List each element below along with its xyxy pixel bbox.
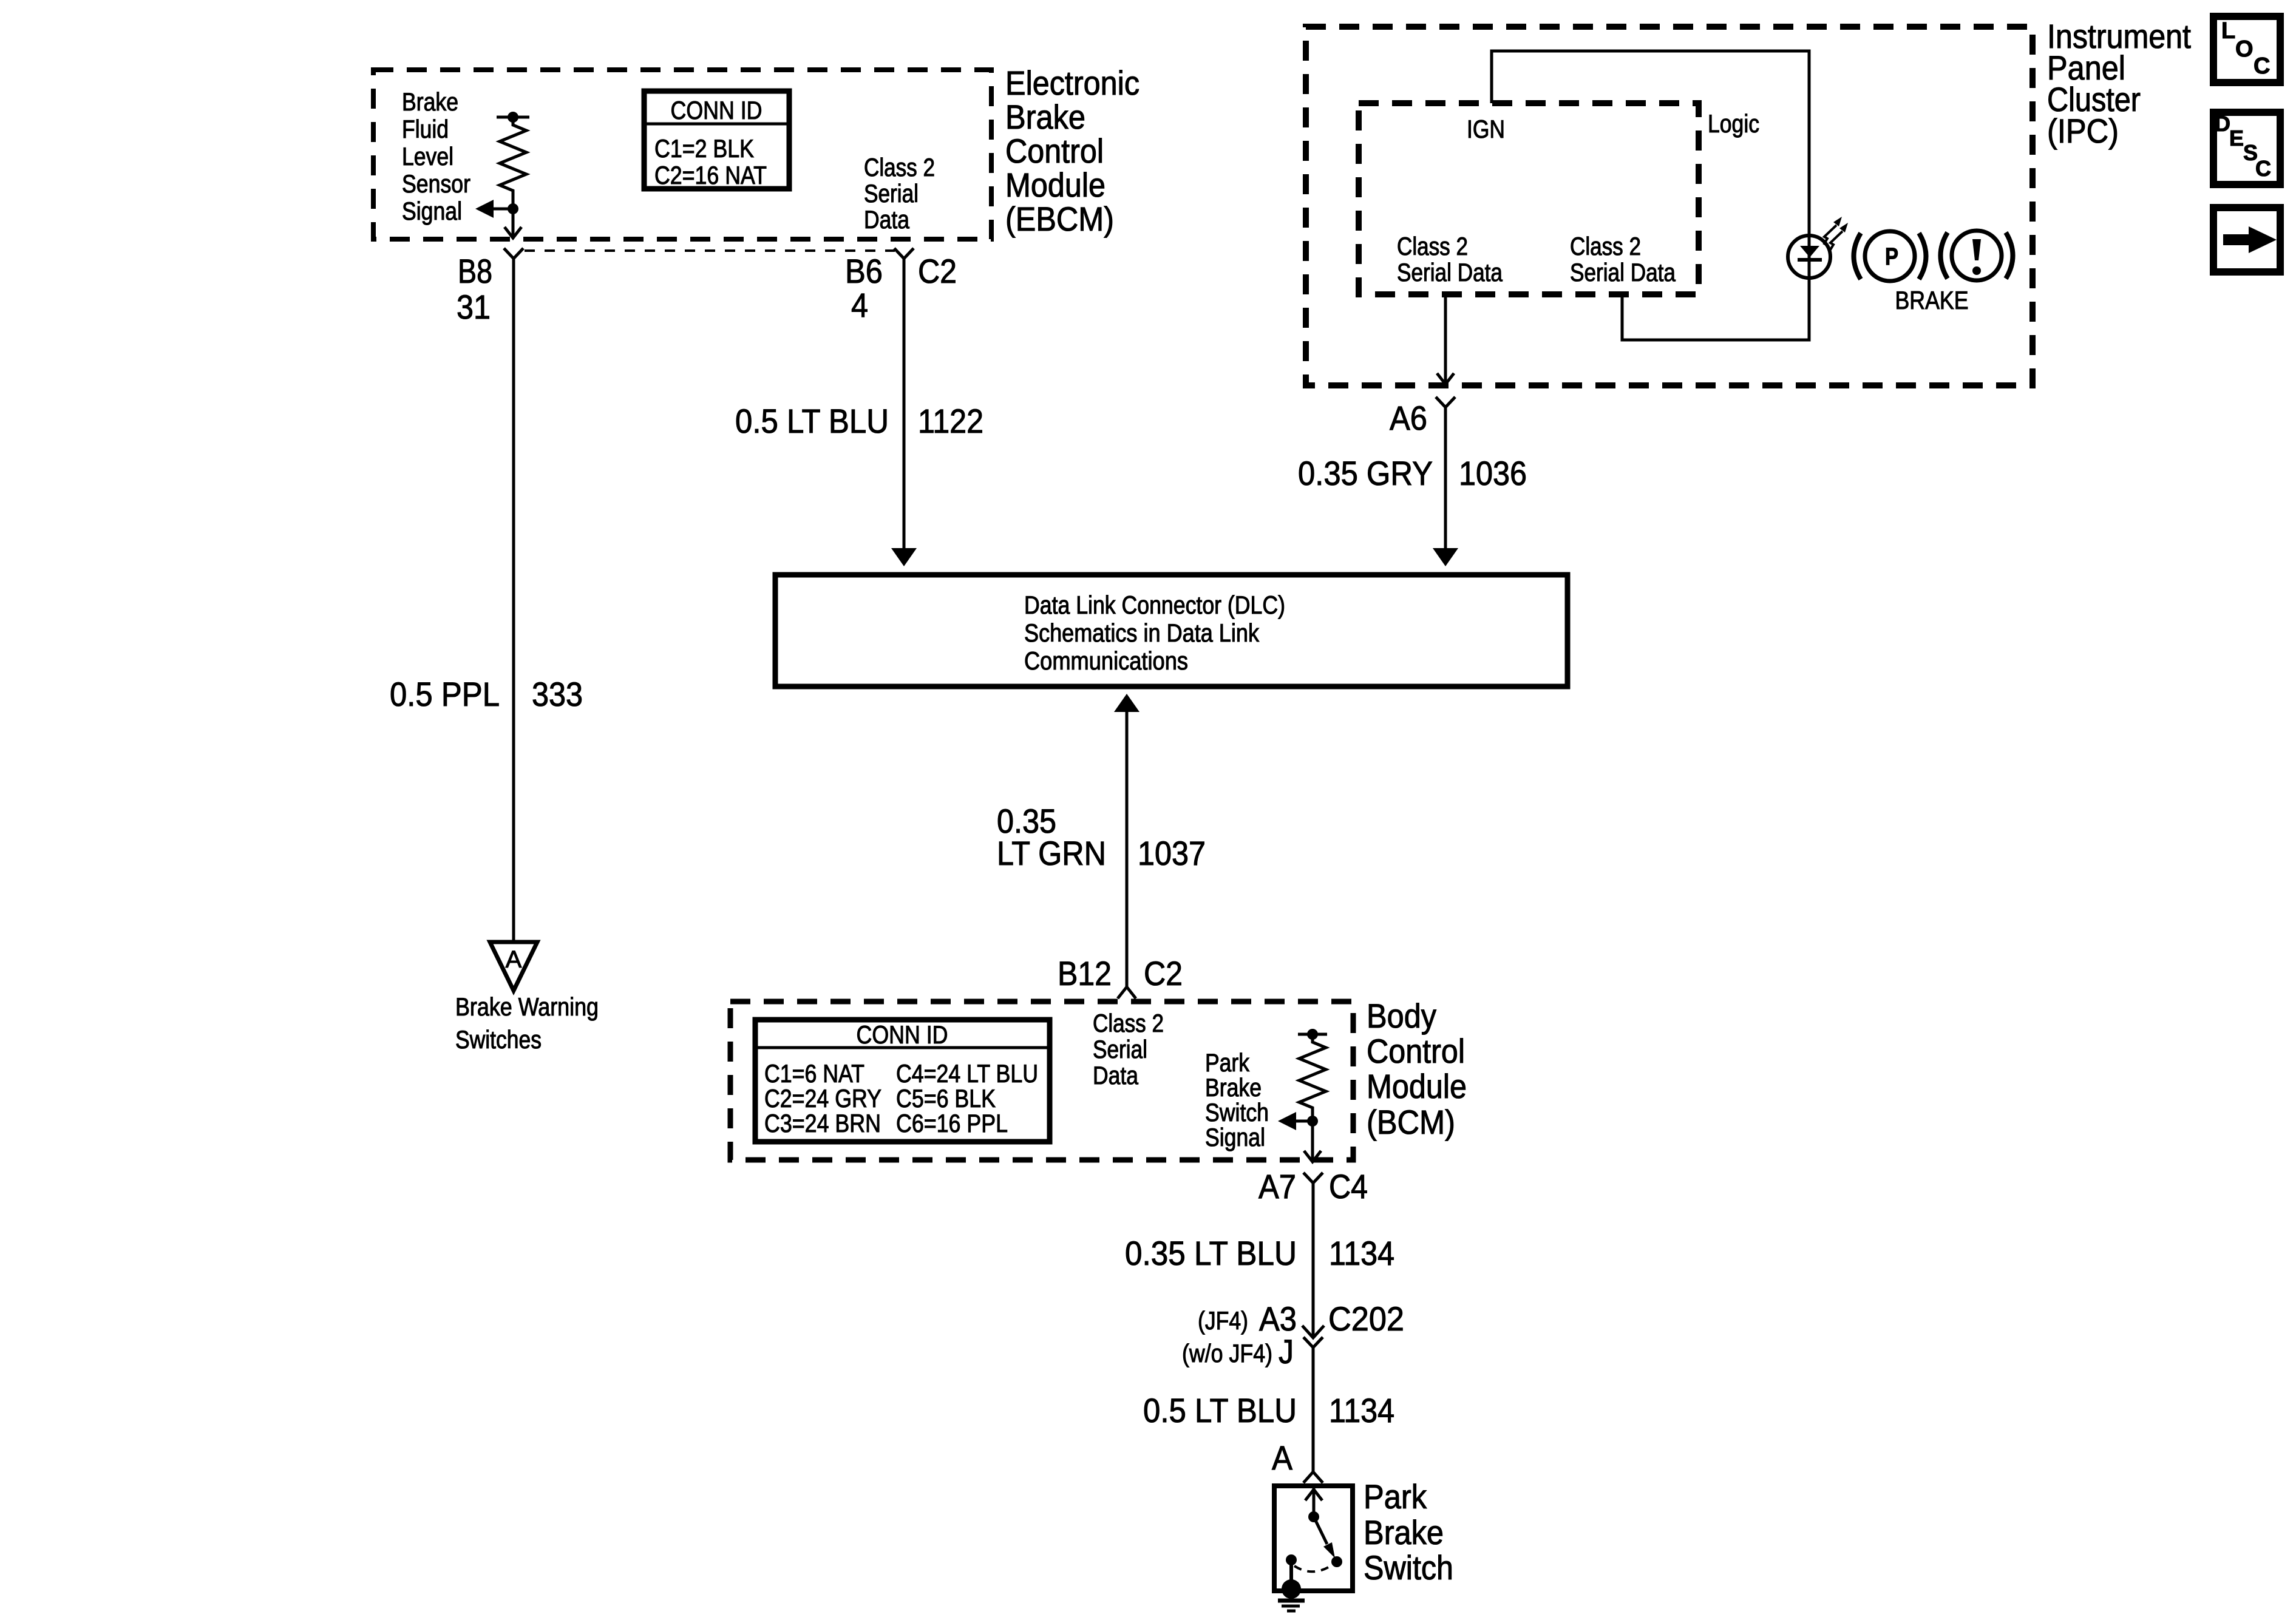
switch contact dot (right) <box>1331 1556 1342 1567</box>
svg-text:Serial: Serial <box>864 179 919 208</box>
title Park Brake Switch <box>1364 1477 1453 1587</box>
svg-text:Park: Park <box>1364 1477 1427 1516</box>
connector C202 male open arrowhead <box>1302 1326 1324 1338</box>
arrowhead into DLC (class 2 from IPC) <box>1433 548 1458 566</box>
svg-text:1134: 1134 <box>1329 1234 1394 1272</box>
svg-text:Serial: Serial <box>1093 1035 1147 1063</box>
svg-text:C1=2 BLK: C1=2 BLK <box>654 134 754 163</box>
thin dashed connector link line C2 (B8 to B6) <box>525 249 895 252</box>
svg-text:Brake: Brake <box>402 87 458 116</box>
svg-text:A: A <box>1272 1439 1293 1477</box>
svg-text:J: J <box>1279 1332 1294 1371</box>
junction dot (BCM resistor bottom) <box>1307 1116 1318 1127</box>
module box IPC (Instrument Panel Cluster) <box>1306 27 2033 385</box>
svg-text:Class 2: Class 2 <box>864 153 935 181</box>
switch pivot dot <box>1308 1511 1319 1522</box>
svg-text:(IPC): (IPC) <box>2047 112 2119 150</box>
desc icon <box>2213 111 2280 185</box>
junction dot (resistor bottom) <box>508 203 518 214</box>
svg-text:C1=6 NAT: C1=6 NAT <box>764 1059 864 1088</box>
switch arm with arrowhead <box>1314 1517 1335 1558</box>
svg-text:Brake: Brake <box>1005 98 1085 136</box>
label Class 2 Serial Data (EBCM) <box>864 153 935 234</box>
svg-text:Serial Data: Serial Data <box>1570 258 1676 286</box>
sensor signal tap arrow <box>475 200 513 218</box>
label Class 2 Serial Data (IPC right) <box>1570 232 1676 286</box>
svg-text:C2=24 GRY: C2=24 GRY <box>764 1084 881 1113</box>
connector chevron pin B8 <box>504 248 523 259</box>
svg-text:1122: 1122 <box>918 402 983 440</box>
label Class 2 Serial Data (IPC left) <box>1397 232 1503 286</box>
arrowhead into DLC (class 2 from EBCM) <box>891 548 917 566</box>
svg-text:C2: C2 <box>1144 954 1183 992</box>
svg-text:Logic: Logic <box>1708 109 1759 138</box>
svg-text:(w/o JF4): (w/o JF4) <box>1182 1339 1272 1368</box>
svg-text:Sensor: Sensor <box>402 169 470 198</box>
connector C202 female chevron <box>1303 1337 1323 1347</box>
nav arrow icon <box>2213 208 2280 272</box>
svg-text:0.5 PPL: 0.5 PPL <box>390 675 500 713</box>
off-page connector triangle A <box>490 942 537 991</box>
svg-text:Fluid: Fluid <box>402 115 449 143</box>
module box EBCM (Electronic Brake Control Module) <box>373 70 991 239</box>
svg-text:E: E <box>2229 126 2244 151</box>
logic box (inner dashed) <box>1359 103 1699 294</box>
svg-text:Schematics in Data Link: Schematics in Data Link <box>1024 619 1260 647</box>
svg-text:Electronic: Electronic <box>1005 64 1140 102</box>
wire C202 to park brake switch <box>1312 1347 1315 1472</box>
svg-text:Signal: Signal <box>402 197 462 225</box>
resistor park brake switch signal <box>1298 1034 1327 1121</box>
park brake switch signal tap arrow <box>1278 1112 1313 1130</box>
svg-text:C202: C202 <box>1328 1300 1404 1338</box>
switch wire entering with up arrowhead <box>1305 1486 1322 1517</box>
svg-text:Brake Warning: Brake Warning <box>455 992 599 1021</box>
switch travel dashed arc <box>1294 1564 1333 1571</box>
svg-text:D: D <box>2215 111 2230 136</box>
svg-text:Brake: Brake <box>1364 1513 1444 1551</box>
DLC box (Data Link Connector) <box>775 575 1567 686</box>
svg-text:4: 4 <box>851 286 868 324</box>
svg-text:C2=16 NAT: C2=16 NAT <box>654 161 767 189</box>
svg-text:Switch: Switch <box>1364 1548 1453 1587</box>
label Class 2 Serial Data (BCM) <box>1093 1009 1164 1090</box>
svg-text:0.5 LT BLU: 0.5 LT BLU <box>735 402 889 440</box>
svg-text:Class 2: Class 2 <box>1397 232 1468 260</box>
lamp symbol (P) park <box>1854 231 1926 281</box>
svg-text:Body: Body <box>1367 997 1436 1035</box>
ground symbol <box>1278 1601 1305 1611</box>
svg-text:Switches: Switches <box>455 1025 542 1054</box>
svg-text:B6: B6 <box>845 252 883 290</box>
junction dot (resistor top) <box>508 112 518 123</box>
connector chevron pin A6 <box>1436 397 1455 407</box>
lamp symbol (!) brake warning <box>1941 231 2013 280</box>
svg-text:Data Link Connector (DLC): Data Link Connector (DLC) <box>1024 591 1285 619</box>
svg-text:CONN ID: CONN ID <box>671 96 763 124</box>
wire A6 inside IPC with open arrowhead <box>1437 296 1454 384</box>
switch contact dot (left) <box>1286 1554 1297 1565</box>
svg-text:1134: 1134 <box>1329 1391 1394 1429</box>
svg-text:A6: A6 <box>1390 399 1427 437</box>
svg-text:0.5 LT BLU: 0.5 LT BLU <box>1143 1391 1297 1429</box>
svg-text:(EBCM): (EBCM) <box>1005 200 1114 238</box>
svg-text:Data: Data <box>1093 1061 1139 1090</box>
park brake switch box <box>1274 1486 1353 1591</box>
lightning arrows on LED <box>1824 217 1848 251</box>
svg-text:L: L <box>2221 18 2235 44</box>
arrowhead up into DLC (class 2 from BCM) <box>1114 694 1140 712</box>
svg-text:(BCM): (BCM) <box>1367 1103 1455 1141</box>
loc icon <box>2213 16 2280 83</box>
label Brake Fluid Level Sensor Signal <box>402 87 470 225</box>
label Brake Warning Switches <box>455 992 599 1054</box>
LED brake warning lamp <box>1788 236 1830 281</box>
svg-text:Signal: Signal <box>1205 1123 1265 1151</box>
connector chevron pin B6 <box>894 248 914 259</box>
svg-text:1037: 1037 <box>1138 834 1206 872</box>
DLC text <box>1024 591 1285 675</box>
svg-text:BRAKE: BRAKE <box>1895 286 1969 314</box>
label 0.35 LT GRN <box>997 802 1106 872</box>
svg-text:Communications: Communications <box>1024 646 1188 675</box>
svg-text:Control: Control <box>1367 1032 1465 1070</box>
svg-text:1036: 1036 <box>1459 454 1527 492</box>
switch contact stem <box>1289 1560 1293 1582</box>
wire resistor to border with open arrowhead <box>504 209 521 238</box>
title Body Control Module (BCM) <box>1367 997 1467 1141</box>
svg-text:C6=16 PPL: C6=16 PPL <box>896 1109 1008 1137</box>
wire B8 to off-page triangle <box>512 259 515 940</box>
CONN ID table (BCM) <box>755 1020 1050 1142</box>
svg-text:IGN: IGN <box>1467 115 1505 143</box>
svg-text:A: A <box>506 946 522 973</box>
svg-text:C4=24 LT BLU: C4=24 LT BLU <box>896 1059 1038 1088</box>
wire B6 to DLC <box>903 259 906 549</box>
wire LT GRN (DLC to B12) <box>1126 712 1129 987</box>
svg-text:C3=24 BRN: C3=24 BRN <box>764 1109 881 1137</box>
svg-text:C: C <box>2255 156 2271 181</box>
svg-text:Class 2: Class 2 <box>1570 232 1641 260</box>
svg-text:0.35 LT BLU: 0.35 LT BLU <box>1125 1234 1297 1272</box>
svg-text:A7: A7 <box>1258 1167 1296 1205</box>
wire A6 to DLC <box>1444 407 1447 549</box>
svg-text:CONN ID: CONN ID <box>857 1020 948 1049</box>
CONN ID table (EBCM) <box>644 91 789 189</box>
svg-text:Serial Data: Serial Data <box>1397 258 1503 286</box>
svg-text:Module: Module <box>1367 1067 1467 1105</box>
title Electronic Brake Control Module (EBCM) <box>1005 64 1140 238</box>
svg-text:Park: Park <box>1205 1048 1250 1077</box>
svg-text:B8: B8 <box>458 252 492 290</box>
svg-text:Switch: Switch <box>1205 1098 1269 1127</box>
svg-text:31: 31 <box>457 288 491 326</box>
svg-text:Data: Data <box>864 205 910 234</box>
connector chevron pin A7 <box>1303 1173 1323 1183</box>
switch ground terminal dot <box>1282 1579 1301 1599</box>
svg-text:Module: Module <box>1005 166 1106 204</box>
connector chevron pin B12 <box>1118 987 1136 998</box>
connector chevron pin A <box>1303 1472 1323 1483</box>
junction dot (BCM resistor top) <box>1307 1029 1318 1040</box>
svg-text:0.35 GRY: 0.35 GRY <box>1298 454 1433 492</box>
svg-text:Class 2: Class 2 <box>1093 1009 1164 1037</box>
wire resistor to BCM border with open arrowhead <box>1304 1121 1321 1162</box>
svg-text:C5=6 BLK: C5=6 BLK <box>896 1084 996 1113</box>
svg-text:Control: Control <box>1005 132 1104 170</box>
svg-text:P: P <box>1885 243 1898 270</box>
svg-text:B12: B12 <box>1058 954 1112 992</box>
svg-text:C2: C2 <box>918 252 957 290</box>
svg-text:C: C <box>2254 53 2270 79</box>
svg-text:Brake: Brake <box>1205 1073 1262 1102</box>
resistor brake fluid level sensor <box>497 117 529 209</box>
svg-text:LT GRN: LT GRN <box>997 834 1106 872</box>
svg-text:(JF4): (JF4) <box>1198 1306 1248 1335</box>
svg-text:C4: C4 <box>1329 1167 1368 1205</box>
title Instrument Panel Cluster (IPC) <box>2047 17 2191 150</box>
svg-text:333: 333 <box>532 675 583 713</box>
svg-text:O: O <box>2235 36 2254 62</box>
wire A7 to C202 <box>1312 1183 1315 1338</box>
label Park Brake Switch Signal <box>1205 1048 1269 1151</box>
wire IGN loop to lamp <box>1492 51 1809 260</box>
wire lamp to logic box <box>1622 281 1809 340</box>
module box BCM (Body Control Module) <box>730 1001 1353 1160</box>
svg-text:Level: Level <box>402 142 453 171</box>
